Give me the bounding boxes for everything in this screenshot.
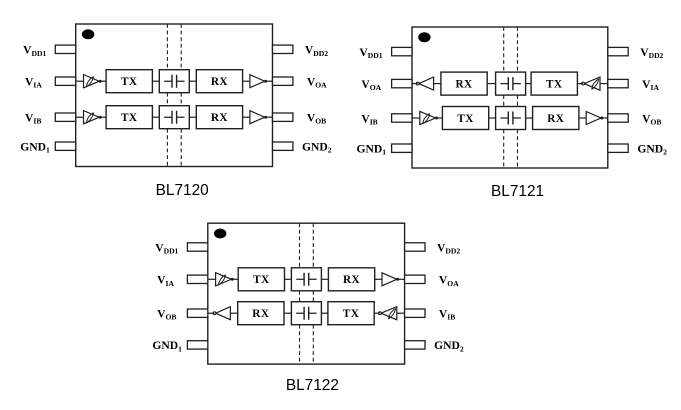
- TX block channel B of BL7120: [106, 106, 152, 129]
- isolation capacitor channel B of BL7121: [496, 107, 526, 130]
- pin-1 index dot of BL7120: [82, 29, 94, 39]
- junction circle at buffer output, channel B of BL7120: [99, 116, 102, 119]
- wire: input pin to Schmitt buffer, channel B of BL7121: [412, 117, 420, 119]
- svg-text:TX: TX: [546, 79, 563, 91]
- pin GND1 (left pin 4 of BL7120): [55, 142, 75, 150]
- wire: isolation capacitor to RX block, channel A of BL7122: [321, 278, 328, 280]
- isolation barrier dashed line left of BL7121: [503, 27, 505, 168]
- RX block channel A of BL7122: [328, 268, 374, 291]
- svg-text:VDD2: VDD2: [305, 44, 328, 58]
- svg-text:VIA: VIA: [25, 76, 42, 90]
- isolation capacitor channel A of BL7121: [496, 72, 526, 95]
- pin VDD1 (left pin 1 of BL7122): [187, 243, 207, 251]
- wire: RX to output buffer, channel A of BL7122: [375, 278, 382, 280]
- junction circle at output buffer tip, channel B of BL7121: [600, 117, 603, 120]
- svg-text:GND2: GND2: [302, 141, 332, 155]
- pin GND2 (right pin 4 of BL7120): [273, 142, 293, 150]
- svg-text:GND1: GND1: [20, 141, 50, 155]
- output buffer (left-pointing), channel A of BL7121: [419, 77, 434, 90]
- isolator chip BL7121: [357, 27, 668, 200]
- Schmitt-trigger input buffer (left-pointing), channel B of BL7122: [381, 307, 397, 320]
- isolation capacitor channel B of BL7122: [291, 302, 321, 325]
- svg-text:TX: TX: [253, 274, 270, 286]
- wire: input pin to Schmitt buffer, channel A of BL7122: [208, 278, 216, 280]
- svg-text:VOB: VOB: [307, 112, 326, 126]
- TX block channel B of BL7121: [442, 107, 488, 130]
- chip BL7120 package outline: [76, 24, 273, 167]
- output buffer, channel A of BL7122: [382, 273, 397, 286]
- RX block channel A of BL7120: [196, 70, 242, 93]
- svg-text:VIA: VIA: [642, 78, 659, 92]
- isolation barrier dashed line right of BL7120: [180, 24, 182, 167]
- pin GND1 (left pin 4 of BL7122): [187, 341, 207, 349]
- wire: input pin to Schmitt buffer, channel A of BL7120: [76, 80, 84, 82]
- isolation capacitor channel B of BL7120: [159, 106, 189, 129]
- pin VOB (right pin 3 of BL7120): [273, 113, 293, 121]
- isolation barrier dashed line right of BL7121: [517, 27, 519, 168]
- pin-1 index dot of BL7122: [214, 229, 226, 239]
- svg-text:BL7121: BL7121: [491, 183, 544, 200]
- TX block channel A of BL7122: [238, 268, 284, 291]
- svg-text:TX: TX: [343, 308, 360, 320]
- wire: TX to isolation capacitor, channel B of BL7121: [489, 117, 496, 119]
- RX block channel A of BL7121: [441, 72, 487, 95]
- wire: input pin to Schmitt buffer, channel B of BL7120: [76, 116, 84, 118]
- svg-text:BL7122: BL7122: [286, 377, 339, 394]
- wire: RX to output buffer, channel A of BL7121: [434, 83, 441, 85]
- wire: output buffer to output pin (left), channel B of BL7122: [208, 312, 215, 314]
- pin VDD1 (left pin 1 of BL7121): [392, 47, 412, 55]
- pin-1 index dot of BL7121: [418, 32, 430, 42]
- svg-text:VDD1: VDD1: [359, 46, 382, 60]
- wire: input pin (right) to Schmitt buffer, channel B of BL7122: [397, 312, 405, 314]
- junction circle at buffer output, channel A of BL7120: [99, 80, 102, 83]
- wire: output buffer to output pin, channel B of BL7120: [266, 116, 273, 118]
- svg-text:RX: RX: [343, 274, 361, 286]
- wire: TX to isolation capacitor, channel A of BL7122: [285, 278, 292, 280]
- svg-text:VIB: VIB: [25, 112, 41, 126]
- wire: isolation capacitor to RX block, channel B of BL7120: [189, 116, 196, 118]
- Schmitt-trigger input buffer, channel A of BL7120: [84, 75, 100, 88]
- svg-text:VOB: VOB: [157, 308, 176, 322]
- Schmitt-trigger input buffer, channel B of BL7121: [420, 111, 436, 124]
- isolation barrier dashed line left of BL7122: [299, 223, 301, 364]
- svg-text:TX: TX: [121, 112, 138, 124]
- pin GND1 (left pin 4 of BL7121): [392, 144, 412, 152]
- pin VOA (right pin 2 of BL7122): [405, 275, 425, 283]
- svg-text:GND2: GND2: [434, 339, 464, 353]
- svg-text:TX: TX: [121, 76, 138, 88]
- pin VOB (left pin 3 of BL7122): [187, 309, 207, 317]
- wire: TX to isolation capacitor, channel A of BL7120: [152, 80, 159, 82]
- svg-text:RX: RX: [547, 113, 565, 125]
- TX block channel A of BL7121: [531, 72, 577, 95]
- svg-text:VDD1: VDD1: [23, 44, 46, 58]
- output buffer, channel B of BL7121: [586, 112, 601, 125]
- chip BL7121 package outline: [412, 27, 608, 168]
- svg-text:VDD2: VDD2: [437, 241, 460, 255]
- pin VIA (left pin 2 of BL7122): [187, 275, 207, 283]
- wire: RX to output buffer, channel B of BL7121: [579, 117, 586, 119]
- wire: output buffer to output pin, channel B of BL7121: [602, 117, 608, 119]
- pin GND2 (right pin 4 of BL7121): [608, 144, 628, 152]
- svg-text:GND1: GND1: [357, 143, 387, 157]
- wire: buffer to TX block, channel A of BL7121: [577, 83, 583, 85]
- isolator chip BL7120: [20, 24, 332, 199]
- junction circle at buffer output, channel B of BL7121: [435, 117, 438, 120]
- svg-text:GND1: GND1: [152, 339, 182, 353]
- pin VDD2 (right pin 1 of BL7120): [273, 45, 293, 53]
- junction circle at output buffer tip, channel B of BL7122: [213, 312, 216, 315]
- Schmitt-trigger input buffer, channel B of BL7120: [84, 111, 100, 124]
- junction circle at buffer output, channel A of BL7122: [231, 278, 234, 281]
- wire: output buffer to output pin (left), channel A of BL7121: [412, 83, 418, 85]
- isolator chip BL7122: [152, 223, 464, 394]
- junction circle at output buffer tip, channel A of BL7121: [416, 82, 419, 85]
- RX block channel B of BL7122: [238, 302, 284, 325]
- wire: TX to isolation capacitor, channel B of BL7122: [321, 312, 328, 314]
- wire: isolation capacitor to RX block, channel A of BL7120: [189, 80, 196, 82]
- wire: output buffer to output pin, channel A of BL7122: [398, 278, 405, 280]
- junction circle at output buffer tip, channel A of BL7122: [396, 278, 399, 281]
- junction circle at buffer output, channel B of BL7122: [379, 312, 382, 315]
- svg-text:VDD1: VDD1: [155, 241, 178, 255]
- svg-text:RX: RX: [211, 76, 229, 88]
- svg-text:VIA: VIA: [157, 274, 174, 288]
- pin VOA (right pin 2 of BL7120): [273, 77, 293, 85]
- junction circle at buffer output, channel A of BL7121: [582, 82, 585, 85]
- junction circle at output buffer tip, channel A of BL7120: [264, 80, 267, 83]
- wire: isolation capacitor to RX block, channel B of BL7122: [284, 312, 291, 314]
- wire: isolation capacitor to RX block, channel B of BL7121: [526, 117, 533, 119]
- wire: buffer to TX block, channel B of BL7120: [101, 116, 107, 118]
- wire: RX to output buffer, channel A of BL7120: [243, 80, 250, 82]
- pin VIB (right pin 3 of BL7122): [405, 309, 425, 317]
- pin VDD1 (left pin 1 of BL7120): [55, 45, 75, 53]
- wire: RX to output buffer, channel B of BL7122: [230, 312, 237, 314]
- isolation barrier dashed line right of BL7122: [312, 223, 314, 364]
- svg-text:VDD2: VDD2: [640, 46, 663, 60]
- isolation capacitor channel A of BL7122: [291, 268, 321, 291]
- pin GND2 (right pin 4 of BL7122): [405, 341, 425, 349]
- wire: buffer to TX block, channel B of BL7122: [374, 312, 380, 314]
- pin VOA (left pin 2 of BL7121): [392, 79, 412, 87]
- wire: TX to isolation capacitor, channel B of BL7120: [152, 116, 159, 118]
- wire: TX to isolation capacitor, channel A of BL7121: [526, 83, 532, 85]
- svg-text:VOA: VOA: [439, 274, 459, 288]
- pin VIA (right pin 2 of BL7121): [608, 79, 628, 87]
- Schmitt-trigger input buffer, channel A of BL7122: [216, 273, 232, 286]
- svg-text:VOB: VOB: [642, 112, 661, 126]
- Schmitt-trigger input buffer (left-pointing), channel A of BL7121: [584, 77, 600, 90]
- wire: output buffer to output pin, channel A of BL7120: [266, 80, 273, 82]
- RX block channel B of BL7121: [533, 107, 579, 130]
- svg-text:VOA: VOA: [307, 76, 327, 90]
- TX block channel B of BL7122: [328, 302, 374, 325]
- svg-text:TX: TX: [457, 113, 474, 125]
- svg-text:GND2: GND2: [637, 143, 667, 157]
- pin VDD2 (right pin 1 of BL7122): [405, 243, 425, 251]
- svg-text:VIB: VIB: [361, 112, 377, 126]
- TX block channel A of BL7120: [106, 70, 152, 93]
- isolation barrier dashed line left of BL7120: [166, 24, 168, 167]
- wire: input pin (right) to Schmitt buffer, channel A of BL7121: [600, 83, 608, 85]
- svg-text:VOA: VOA: [361, 78, 381, 92]
- output buffer (left-pointing), channel B of BL7122: [216, 307, 231, 320]
- junction circle at output buffer tip, channel B of BL7120: [264, 116, 267, 119]
- wire: buffer to TX block, channel A of BL7122: [233, 278, 239, 280]
- output buffer, channel B of BL7120: [250, 111, 265, 124]
- pin VIB (left pin 3 of BL7121): [392, 114, 412, 122]
- svg-text:RX: RX: [252, 308, 270, 320]
- chip BL7122 package outline: [208, 223, 405, 364]
- wire: isolation capacitor to RX block, channel A of BL7121: [487, 83, 495, 85]
- RX block channel B of BL7120: [196, 106, 242, 129]
- wire: buffer to TX block, channel B of BL7121: [437, 117, 443, 119]
- pin VIA (left pin 2 of BL7120): [55, 77, 75, 85]
- svg-text:RX: RX: [455, 79, 473, 91]
- wire: RX to output buffer, channel B of BL7120: [243, 116, 250, 118]
- svg-text:RX: RX: [211, 112, 229, 124]
- pin VIB (left pin 3 of BL7120): [55, 113, 75, 121]
- isolation capacitor channel A of BL7120: [159, 70, 189, 93]
- pin VDD2 (right pin 1 of BL7121): [608, 47, 628, 55]
- output buffer, channel A of BL7120: [250, 75, 265, 88]
- pin VOB (right pin 3 of BL7121): [608, 114, 628, 122]
- wire: buffer to TX block, channel A of BL7120: [101, 80, 107, 82]
- svg-text:BL7120: BL7120: [156, 182, 209, 199]
- svg-text:VIB: VIB: [439, 308, 455, 322]
